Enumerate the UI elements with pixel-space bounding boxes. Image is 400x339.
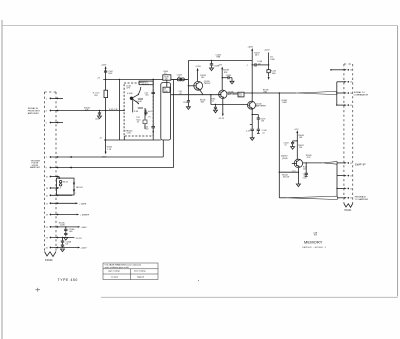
wire stub pin B xyxy=(337,81,353,84)
wire into pin xyxy=(337,197,344,199)
svg-text:TYPE 450: TYPE 450 xyxy=(58,278,78,282)
resistor R1046 label xyxy=(298,135,304,139)
label C140 xyxy=(262,130,267,134)
svg-text:C4: C4 xyxy=(350,70,352,72)
svg-text:-12.2V: -12.2V xyxy=(219,118,225,120)
wire vertical bus xyxy=(105,66,107,154)
relay small cap cluster xyxy=(144,110,147,116)
wire collector output xyxy=(303,162,323,164)
label R1066 xyxy=(303,167,307,171)
label Q1034 xyxy=(204,81,211,85)
svg-text:C112: C112 xyxy=(95,119,99,121)
svg-text:R-105 1.3K: R-105 1.3K xyxy=(109,109,118,111)
svg-text:1.5.1: 1.5.1 xyxy=(292,171,296,173)
wire into pin xyxy=(337,92,344,94)
svg-text:C1035: C1035 xyxy=(226,75,231,77)
wire Q3 emitter chain xyxy=(251,109,253,129)
lamp B1040 box xyxy=(57,178,75,195)
relay label box xyxy=(139,81,153,85)
svg-text:4-1040: 4-1040 xyxy=(127,93,133,95)
wire top rail xyxy=(188,60,252,62)
pin 9 gate xyxy=(46,202,87,205)
capacitor C1049 label xyxy=(303,173,308,177)
svg-text:2N2207: 2N2207 xyxy=(204,83,211,85)
ground xyxy=(186,107,190,110)
svg-text:1: 1 xyxy=(46,98,48,100)
wire Q2 emitter xyxy=(222,99,224,117)
svg-text:100 1W: 100 1W xyxy=(283,177,290,179)
label schematic number xyxy=(313,233,318,237)
svg-text:100K: 100K xyxy=(108,73,113,75)
page edge rule bottom xyxy=(101,296,398,298)
svg-text:R45: R45 xyxy=(264,92,267,94)
svg-text:AMPLIFIER: AMPLIFIER xyxy=(256,105,267,108)
pin 6 xyxy=(46,176,60,179)
wire stub pin E xyxy=(336,188,352,191)
label trigger from xyxy=(30,160,41,169)
tick xyxy=(250,124,252,126)
svg-text:COIL: COIL xyxy=(127,133,131,135)
resistor R1045 label xyxy=(59,222,66,226)
ground xyxy=(230,81,234,84)
svg-text:-x: -x xyxy=(247,65,249,67)
svg-text:15K: 15K xyxy=(261,120,265,122)
svg-text:under conditions given at: under conditions given at left. xyxy=(105,266,130,269)
wire main top horizontal xyxy=(103,78,188,80)
wire loop bottom xyxy=(104,139,161,141)
connector P1041 end zigzag xyxy=(344,204,353,208)
svg-text:R24: R24 xyxy=(224,72,227,74)
svg-text:no signal: no signal xyxy=(111,276,119,278)
svg-text:19: 19 xyxy=(46,215,49,217)
svg-text:+ GATE: + GATE xyxy=(79,202,87,205)
svg-text:Q1045: Q1045 xyxy=(282,158,288,160)
ground xyxy=(61,249,65,252)
svg-text:R 4.7: R 4.7 xyxy=(136,117,140,119)
wire Q4 base stub xyxy=(292,162,294,164)
svg-text:10K: 10K xyxy=(299,137,303,139)
svg-text:R61: R61 xyxy=(94,95,97,97)
svg-text:.005: .005 xyxy=(69,231,73,233)
svg-text:K1040: K1040 xyxy=(137,101,142,103)
svg-text:48.4: 48.4 xyxy=(255,55,259,57)
svg-text:C1033: C1033 xyxy=(183,102,188,104)
capacitor C1037 tap xyxy=(214,104,217,110)
connector P1040 left dashed strip xyxy=(45,92,57,252)
resistor R1039 label xyxy=(263,89,269,93)
relay armature xyxy=(130,97,133,100)
pin 10 xyxy=(46,214,90,217)
svg-text:C-65: C-65 xyxy=(303,178,307,180)
transistor Q1034 xyxy=(194,81,203,90)
svg-text:C5: C5 xyxy=(212,100,214,102)
svg-text:C9: C9 xyxy=(350,188,352,190)
svg-text:17: 17 xyxy=(46,203,49,205)
svg-text:150: 150 xyxy=(299,147,302,149)
svg-text:P1040: P1040 xyxy=(45,258,53,262)
svg-text:C2: C2 xyxy=(350,105,352,107)
label C1047 xyxy=(284,142,289,146)
inductor L1038 box xyxy=(238,92,244,97)
svg-text:C8: C8 xyxy=(179,93,181,95)
label 7082 C5 xyxy=(211,98,215,102)
pin 1 xyxy=(46,97,63,100)
wire stub pin C xyxy=(336,104,352,107)
svg-text:1.5K: 1.5K xyxy=(107,149,111,151)
pin 3 xyxy=(46,122,63,125)
pin 4 trigger xyxy=(46,156,164,159)
svg-text:4.7: 4.7 xyxy=(100,138,103,140)
stray dot xyxy=(198,280,199,281)
connector P1040 end zigzag xyxy=(45,252,57,257)
wire tap branch xyxy=(252,114,259,118)
svg-text:180K: 180K xyxy=(282,102,287,104)
svg-text:C6: C6 xyxy=(350,82,352,84)
junction dots on pin2 wire xyxy=(105,110,106,111)
svg-text:763: 763 xyxy=(314,235,317,237)
svg-text:+125V: +125V xyxy=(195,66,201,68)
label C1025 R88 xyxy=(216,55,222,59)
relay wire stubs xyxy=(138,99,145,129)
wire Q2 collector riser xyxy=(221,67,223,91)
pin feedback xyxy=(344,197,352,200)
svg-text:SWP IP: SWP IP xyxy=(355,162,366,166)
wire drop to line B xyxy=(210,95,212,105)
svg-text:13: 13 xyxy=(46,188,49,190)
svg-text:10K: 10K xyxy=(85,110,89,112)
resistor R1049 label xyxy=(306,155,312,159)
svg-text:R 4B: R 4B xyxy=(134,111,139,113)
title block table xyxy=(103,263,158,280)
wire line A to Q2 base xyxy=(171,94,221,96)
delay line DL1040 box xyxy=(161,83,171,140)
svg-text:P1041: P1041 xyxy=(345,209,353,212)
capacitor C140 xyxy=(257,129,260,133)
svg-text:6.8: 6.8 xyxy=(66,244,69,246)
svg-text:100K: 100K xyxy=(270,59,275,61)
ground xyxy=(64,238,68,241)
svg-text:-12.2V: -12.2V xyxy=(76,238,83,240)
pin 13 xyxy=(46,247,88,250)
svg-text:R40: R40 xyxy=(201,102,204,104)
wire output bracket xyxy=(336,163,338,198)
svg-text:MEMORY: MEMORY xyxy=(304,239,323,244)
wire Q4 collector riser xyxy=(296,130,298,159)
svg-text:5.5: 5.5 xyxy=(164,73,167,75)
registration mark xyxy=(36,288,41,292)
wire relay caps chain xyxy=(152,79,154,92)
wire Q1 collector riser xyxy=(197,68,199,82)
label sweep out xyxy=(355,162,366,166)
svg-text:-100V: -100V xyxy=(101,156,107,158)
resistor R1033 label xyxy=(200,75,206,79)
svg-text:C7: C7 xyxy=(350,176,352,178)
wire feedback vertical xyxy=(278,93,280,198)
capacitor C1035 branch xyxy=(222,75,233,81)
capacitor C1050 chain xyxy=(305,162,308,176)
svg-text:C-78: C-78 xyxy=(246,130,250,132)
svg-text:2: 2 xyxy=(74,193,75,195)
page edge right xyxy=(397,26,399,297)
svg-text:23: 23 xyxy=(46,238,49,240)
wire R1029 vertical xyxy=(268,53,270,80)
capacitor C104 tap xyxy=(104,71,113,75)
capacitor C112 tap xyxy=(95,110,102,121)
svg-text:4x1.5: 4x1.5 xyxy=(148,111,152,113)
svg-text:21: 21 xyxy=(46,227,49,229)
svg-text:COMPARATOR: COMPARATOR xyxy=(354,93,369,96)
svg-text:+ SWEEP: + SWEEP xyxy=(80,215,90,217)
svg-text:R88: R88 xyxy=(217,57,220,59)
capacitor C1046 xyxy=(64,226,74,236)
resistor R1038 label xyxy=(223,70,229,74)
svg-text:triggered: triggered xyxy=(137,275,144,278)
relay armature curve xyxy=(138,87,141,95)
svg-text:+225V: +225V xyxy=(264,50,270,52)
label R1043 xyxy=(282,100,288,104)
transistor Q1036 xyxy=(219,90,227,98)
svg-text:7: 7 xyxy=(46,157,48,159)
svg-text:+12V: +12V xyxy=(218,65,223,67)
svg-text:25: 25 xyxy=(46,248,49,250)
wire T1040 to DL xyxy=(166,80,168,87)
elongated arrow feedback xyxy=(287,196,338,199)
label R139 xyxy=(260,118,265,122)
svg-text:100F: 100F xyxy=(272,73,277,75)
ground xyxy=(210,68,214,71)
relay resistor label xyxy=(136,111,152,119)
label R1040 xyxy=(107,147,112,151)
svg-text:upper readings: upper readings xyxy=(108,271,120,273)
svg-text:SAMPLER: SAMPLER xyxy=(30,166,40,169)
wire stub pin D xyxy=(344,175,352,178)
svg-text:CPS: CPS xyxy=(126,88,130,90)
ground xyxy=(214,110,218,113)
capacitor C1048 xyxy=(61,237,71,248)
svg-text:C3: C3 xyxy=(350,198,352,200)
pin 7 xyxy=(46,187,59,190)
label above T1040 xyxy=(163,71,168,75)
pin signal xyxy=(336,92,352,95)
page edge left xyxy=(1,20,3,339)
label R1040 coil xyxy=(136,120,140,124)
delay line label box xyxy=(163,87,170,92)
svg-text:TO SAMPLER: TO SAMPLER xyxy=(355,198,369,201)
label feedback to sampler xyxy=(355,195,369,201)
resistor R1027 label xyxy=(254,52,260,56)
wire branch with series cap C148 xyxy=(252,63,270,66)
node bracket top pins xyxy=(336,82,338,105)
lower amp: label 2N2219 xyxy=(281,156,288,160)
lamp box contacts xyxy=(73,183,75,185)
svg-text:+225V: +225V xyxy=(81,248,88,250)
pin 2 xyxy=(46,110,125,113)
svg-text:5: 5 xyxy=(46,123,48,125)
svg-text:220: 220 xyxy=(303,169,306,171)
label NE103 xyxy=(76,187,82,189)
label C-47 xyxy=(179,91,183,95)
transformer T1040 box xyxy=(163,75,171,80)
relay coil label xyxy=(126,130,133,134)
svg-text:B 4: B 4 xyxy=(58,188,61,190)
label R1 100K xyxy=(270,57,275,61)
connector P1041 right dashed strip xyxy=(344,64,353,204)
wire B+ riser xyxy=(251,48,253,101)
wire relay coil down xyxy=(123,136,125,140)
capacitor C1042 coupling xyxy=(171,74,188,81)
wire feedback run xyxy=(279,197,286,199)
elongated arrow trace out xyxy=(323,162,337,165)
node junction xyxy=(252,92,253,93)
svg-text:C5: C5 xyxy=(350,163,352,165)
wire Q4 emitter xyxy=(297,168,299,184)
resistor R140 box xyxy=(267,70,270,73)
transistor Q1040 xyxy=(248,101,256,109)
svg-text:SERIES - MODEL 1: SERIES - MODEL 1 xyxy=(302,247,326,249)
resistor R1047 label xyxy=(298,145,304,149)
ground xyxy=(250,138,254,141)
relay coil label K1040 xyxy=(127,93,142,113)
wire Q1 emitter run xyxy=(200,90,203,95)
svg-text:+300V: +300V xyxy=(248,46,254,48)
svg-text:.001: .001 xyxy=(145,129,149,131)
relay label top left xyxy=(126,85,131,89)
svg-text:4.7K: 4.7K xyxy=(307,157,312,159)
svg-text:1%: 1% xyxy=(148,116,151,118)
svg-text:.01: .01 xyxy=(178,76,181,78)
wire riser L1 xyxy=(162,140,164,157)
label R140 xyxy=(271,71,277,75)
transistor Q1045 xyxy=(294,159,302,167)
svg-text:3: 3 xyxy=(46,111,48,113)
title block text xyxy=(105,264,146,279)
svg-text:lower readings: lower readings xyxy=(134,271,146,273)
wire line B to Q3 base xyxy=(211,104,248,106)
capacitor C1026 xyxy=(210,60,219,68)
page edge top xyxy=(2,25,398,27)
relay contact resistor box xyxy=(143,120,147,124)
svg-text:AMPLIFIER: AMPLIFIER xyxy=(28,112,39,115)
svg-text:NE-23: NE-23 xyxy=(63,182,68,184)
svg-text:.02: .02 xyxy=(262,132,265,134)
svg-text:1K: 1K xyxy=(137,122,140,124)
label signal to comparator xyxy=(354,91,369,97)
svg-text:NE 103: NE 103 xyxy=(76,187,82,189)
pin 12 xyxy=(46,237,83,240)
svg-text:RELAYS: RELAYS xyxy=(142,83,150,86)
svg-text:.001: .001 xyxy=(145,94,149,96)
svg-text:+75: +75 xyxy=(97,78,100,80)
wire emitter feed xyxy=(279,171,298,173)
resistor R104 box xyxy=(104,90,108,97)
svg-text:+225V: +225V xyxy=(101,64,107,66)
svg-text:1040: 1040 xyxy=(164,91,168,93)
svg-text:100K: 100K xyxy=(60,225,65,227)
pin 8 xyxy=(46,193,76,197)
wire Q1 base stub xyxy=(188,85,193,87)
wire riser R2 xyxy=(118,79,120,140)
capacitor C139 xyxy=(257,118,260,129)
relay K1040 dashed box xyxy=(124,83,153,136)
wire corner to Q1 xyxy=(187,61,189,101)
capacitor C1047 branch xyxy=(291,140,298,146)
svg-text:.01: .01 xyxy=(284,144,287,146)
label Q1040 xyxy=(256,103,267,107)
wire stub 175.6 xyxy=(337,175,344,177)
label R1044 xyxy=(282,175,289,179)
svg-text:100: 100 xyxy=(201,77,204,79)
svg-text:9: 9 xyxy=(46,168,48,170)
svg-text:15: 15 xyxy=(46,195,49,197)
pin 11 xyxy=(46,226,88,229)
svg-text:+12V: +12V xyxy=(294,129,299,131)
wire stub pin A xyxy=(330,69,352,72)
wire riser L2 xyxy=(173,79,175,167)
capacitor inline xyxy=(246,129,254,138)
label R1035 xyxy=(200,100,206,104)
svg-text:C8: C8 xyxy=(350,93,352,95)
label C1050 xyxy=(303,178,307,180)
wire main signal line xyxy=(227,92,296,94)
pin trace out xyxy=(344,162,352,165)
capacitor C1043 xyxy=(144,127,155,140)
label C148 xyxy=(257,61,262,65)
label signal in xyxy=(28,107,41,115)
capacitor C1033 xyxy=(183,101,190,107)
pin 5 trigger xyxy=(46,167,174,170)
ground xyxy=(296,184,300,187)
elongated arrow to comparator xyxy=(296,91,337,94)
svg-text:11: 11 xyxy=(46,177,49,179)
label Q1036 xyxy=(228,92,239,96)
ground xyxy=(291,147,295,150)
capacitor C1041 xyxy=(144,92,155,126)
svg-text:+100V: +100V xyxy=(81,227,88,229)
